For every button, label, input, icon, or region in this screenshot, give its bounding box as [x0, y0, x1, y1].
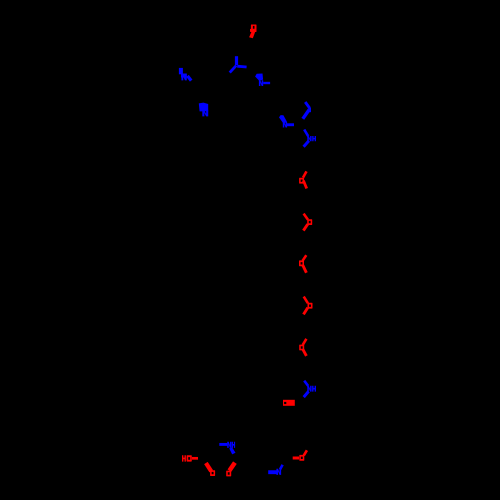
- amide N top: [230, 56, 247, 72]
- ether O3: [299, 255, 306, 273]
- ring N with wedge (pyrimidine): [279, 115, 294, 127]
- ether O2: [303, 214, 312, 231]
- amide C=O lower: [283, 400, 295, 406]
- amide NH lower: [304, 381, 316, 397]
- N with bold wedge (pyrrolidine C3): [255, 74, 270, 87]
- carbonyl O top: [249, 25, 256, 39]
- carboxyl C=O: [206, 463, 215, 476]
- carboxyl HO: [182, 455, 198, 461]
- glutarimide C=O: [226, 463, 235, 477]
- ether O1: [299, 171, 307, 188]
- ether O4: [304, 297, 313, 315]
- pyrazole N=N: [303, 102, 310, 119]
- ether O5: [299, 339, 306, 356]
- ring NH: [304, 130, 316, 147]
- imine N left: [179, 68, 191, 81]
- N with bold wedge left-lower: [199, 103, 208, 117]
- lactam C=N: [268, 465, 282, 475]
- ester O: [293, 450, 307, 460]
- glutarimide NH: [219, 442, 235, 455]
